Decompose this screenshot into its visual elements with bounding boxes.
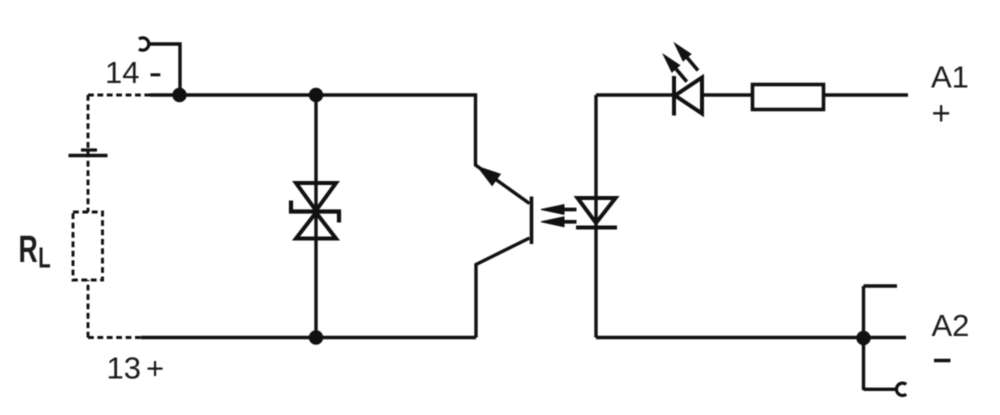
svg-text:+: + (146, 351, 164, 386)
svg-text:+: + (932, 95, 951, 132)
svg-text:13: 13 (107, 351, 141, 386)
svg-text:L: L (38, 242, 50, 274)
svg-text:A2: A2 (932, 308, 970, 343)
svg-text:R: R (19, 227, 38, 270)
svg-text:A1: A1 (931, 60, 969, 95)
svg-text:14: 14 (105, 55, 139, 90)
